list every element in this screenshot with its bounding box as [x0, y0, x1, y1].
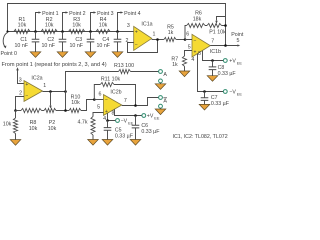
- svg-text:0.33 µF: 0.33 µF: [211, 101, 230, 107]
- svg-text:0.33 µF: 0.33 µF: [115, 133, 134, 139]
- ground below C7: [199, 104, 210, 110]
- svg-text:4: 4: [103, 116, 106, 122]
- svg-text:10k: 10k: [71, 100, 80, 106]
- ground: [155, 109, 166, 115]
- svg-text:6: 6: [99, 92, 102, 98]
- svg-text:From point 1 (repeat for point: From point 1 (repeat for points 2, 3, an…: [2, 62, 107, 68]
- capacitor C6 0.33 uF: [134, 114, 137, 117]
- svg-text:R11 10k: R11 10k: [101, 76, 121, 82]
- svg-text:8: 8: [198, 51, 201, 57]
- resistor 10k to ground: [15, 111, 17, 119]
- svg-text:10 nF: 10 nF: [96, 43, 110, 49]
- svg-text:1k: 1k: [168, 30, 174, 36]
- resistor R6 18k: [185, 26, 187, 40]
- node stub Point 3: [91, 13, 94, 32]
- resistor R13 100: [119, 69, 131, 73]
- svg-text:−V: −V: [121, 119, 128, 125]
- resistor R11 10k feedback: [94, 85, 100, 100]
- svg-text:18k: 18k: [193, 16, 202, 22]
- op-amp IC2a: [24, 81, 43, 102]
- svg-text:0.33 µF: 0.33 µF: [141, 129, 160, 135]
- junction: [116, 30, 119, 33]
- junction: [61, 30, 64, 33]
- svg-text:EE: EE: [237, 61, 243, 65]
- ground below 4.7k: [88, 140, 99, 146]
- wire: pin 5 to R7: [185, 51, 193, 57]
- junction pin 6 node: [93, 98, 96, 101]
- svg-text:EE: EE: [154, 116, 160, 120]
- junction: [34, 30, 37, 33]
- svg-text:2: 2: [19, 90, 22, 96]
- svg-text:10k: 10k: [18, 23, 27, 29]
- node stub Point 1: [36, 13, 39, 32]
- wire: pin 5 to 4.7k: [93, 113, 104, 117]
- svg-text:5: 5: [97, 104, 100, 110]
- resistor R5 1k: [164, 37, 176, 41]
- svg-text:P1 10k: P1 10k: [209, 30, 226, 36]
- resistor R10 10k: [69, 108, 81, 112]
- svg-text:7: 7: [124, 98, 127, 104]
- svg-text:EE: EE: [128, 121, 134, 125]
- ground: [112, 52, 123, 58]
- wire: IC1a feedback loop: [128, 40, 158, 53]
- svg-text:4.7k: 4.7k: [77, 120, 87, 126]
- svg-text:−: −: [105, 97, 108, 103]
- terminal ground A: [159, 79, 163, 83]
- svg-text:10k: 10k: [99, 23, 108, 29]
- ground below C8: [207, 76, 218, 82]
- ground below C6: [130, 140, 141, 146]
- ground: [155, 84, 166, 90]
- svg-text:10 nF: 10 nF: [69, 43, 83, 49]
- capacitor C7 0.33 uF: [203, 90, 206, 93]
- svg-text:1: 1: [43, 83, 46, 89]
- svg-text:R13 100: R13 100: [114, 63, 134, 69]
- resistor 4.7k: [91, 117, 95, 136]
- svg-text:IC2a: IC2a: [31, 75, 42, 81]
- ground: [57, 52, 68, 58]
- node stub Point 2: [63, 13, 66, 32]
- svg-text:1k: 1k: [172, 62, 178, 68]
- svg-text:EE: EE: [237, 92, 243, 96]
- svg-text:Point 2: Point 2: [69, 11, 86, 17]
- svg-text:5: 5: [188, 44, 191, 50]
- svg-text:IC1a: IC1a: [141, 22, 152, 28]
- svg-text:4: 4: [191, 57, 194, 63]
- svg-text:3: 3: [127, 23, 130, 29]
- terminal Abar: [159, 96, 163, 100]
- svg-text:Point 0: Point 0: [1, 51, 18, 57]
- svg-text:Point 1: Point 1: [42, 11, 59, 17]
- junction P1/rail: [224, 24, 227, 27]
- ground below C5: [102, 140, 113, 146]
- junction: [156, 38, 159, 41]
- resistor R4 10k: [96, 29, 110, 33]
- svg-text:+: +: [135, 30, 138, 36]
- wire: IC2a output: [43, 91, 66, 93]
- op-amp IC2b: [104, 95, 122, 116]
- wire: input arrow into IC2a pin 3: [16, 67, 19, 70]
- svg-text:−: −: [193, 38, 196, 44]
- capacitor C4 10 nF: [117, 32, 119, 52]
- junction pin2/R8/10k: [14, 109, 17, 112]
- capacitor C1 10 nF: [35, 32, 37, 52]
- svg-text:+: +: [25, 82, 28, 88]
- resistor R2 10k: [41, 29, 57, 33]
- ground: [85, 52, 96, 58]
- svg-text:+: +: [193, 49, 196, 55]
- svg-text:6: 6: [186, 32, 189, 38]
- svg-text:+V: +V: [229, 59, 236, 65]
- wire: riser bottom row to R13 row: [66, 72, 119, 111]
- svg-text:7: 7: [211, 38, 214, 44]
- svg-text:A: A: [163, 98, 167, 104]
- svg-text:10k: 10k: [72, 23, 81, 29]
- capacitor C8 0.33 uF: [211, 59, 214, 62]
- wire: IC1a output: [152, 39, 164, 41]
- wire: IC2b output to Abar: [122, 98, 159, 106]
- svg-text:Point 3: Point 3: [97, 11, 114, 17]
- wire: top feedback rail with side drops: [8, 4, 226, 46]
- ground: [30, 52, 41, 58]
- terminal A: [159, 70, 163, 74]
- svg-text:10k: 10k: [3, 121, 12, 127]
- wire: RC ladder row: [8, 31, 134, 33]
- terminal +VEE: [223, 59, 227, 63]
- svg-text:−: −: [25, 94, 28, 100]
- ground: [10, 140, 21, 146]
- capacitor C3 10 nF: [90, 32, 92, 52]
- capacitor C5 0.33 uF: [106, 119, 109, 122]
- svg-text:−: −: [135, 42, 138, 48]
- wire: pin 4 to -VEE: [108, 113, 116, 120]
- junction output/rail: [224, 44, 227, 47]
- svg-text:10 nF: 10 nF: [14, 43, 28, 49]
- svg-text:10k: 10k: [45, 23, 54, 29]
- junction: [89, 30, 92, 33]
- terminal +VEE (IC2b): [142, 114, 146, 118]
- svg-text:IC1, IC2: TL082, TL072: IC1, IC2: TL082, TL072: [173, 134, 228, 140]
- resistor R3 10k: [69, 29, 85, 33]
- wire: pin 4 to -VEE: [198, 54, 224, 92]
- svg-text:10 nF: 10 nF: [41, 43, 55, 49]
- svg-text:IC2b: IC2b: [110, 90, 121, 96]
- svg-text:Point 4: Point 4: [124, 11, 141, 17]
- svg-text:3: 3: [19, 78, 22, 84]
- junction R5/R6/pin6: [184, 38, 187, 41]
- svg-text:5: 5: [237, 38, 240, 44]
- wire: pin 8 to +VEE: [115, 109, 142, 115]
- wire: IC2a pin 2 feedback: [16, 97, 25, 111]
- terminal -VEE: [223, 90, 227, 94]
- svg-text:A: A: [163, 72, 167, 78]
- svg-text:IC1b: IC1b: [210, 49, 221, 55]
- wire: pin 8 to +VEE: [203, 51, 224, 61]
- resistor R8 10k: [16, 110, 22, 112]
- op-amp IC1a: [134, 26, 152, 50]
- wire: wiper drop to P2: [50, 92, 52, 106]
- node stub Point 4: [118, 13, 121, 32]
- wire: IC1b output and Point 5 stub: [210, 45, 238, 47]
- svg-text:0.33 µF: 0.33 µF: [218, 71, 237, 77]
- ground below R7: [179, 71, 190, 77]
- terminal ground Abar: [159, 104, 163, 108]
- potentiometer P2 10k: [42, 110, 45, 112]
- capacitor C2 10 nF: [62, 32, 64, 52]
- op-amp IC1b: [192, 34, 210, 57]
- potentiometer P1 10k: [207, 23, 222, 27]
- resistor R7 1k: [182, 56, 186, 66]
- node Point 0 curved arrow: [6, 30, 8, 32]
- svg-text:+V: +V: [147, 114, 154, 120]
- svg-text:1: 1: [153, 31, 156, 37]
- svg-text:10k: 10k: [29, 126, 38, 132]
- wire: node to pin 6: [185, 39, 192, 41]
- svg-text:2: 2: [126, 38, 129, 44]
- svg-text:10k: 10k: [48, 126, 57, 132]
- resistor R1 10k: [14, 29, 30, 33]
- svg-text:−V: −V: [229, 90, 236, 96]
- terminal -VEE (IC2b): [116, 119, 120, 123]
